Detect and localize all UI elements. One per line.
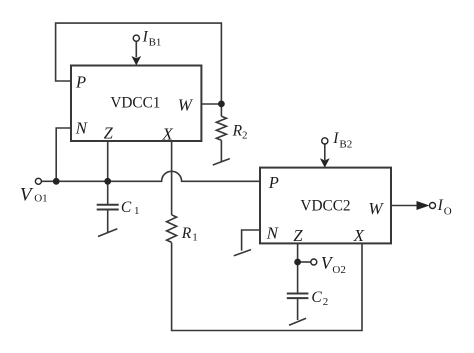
svg-text:P: P (268, 173, 279, 192)
resistor R2 (216, 116, 226, 140)
svg-text:I: I (142, 28, 149, 45)
svg-text:O: O (444, 206, 452, 218)
terminal I_B2 (322, 138, 328, 144)
svg-text:C: C (311, 289, 322, 306)
wire N2 to ground (242, 230, 260, 251)
svg-text:P: P (75, 73, 86, 92)
ground below R2 (213, 140, 230, 165)
terminal I_O (430, 203, 436, 209)
terminal VO1 (35, 178, 41, 184)
svg-text:O1: O1 (34, 193, 47, 205)
capacitor C1 (97, 205, 119, 210)
ground at N2 (234, 250, 251, 256)
wire feedback W1 to P1 (top loop) (56, 23, 222, 116)
wire main horizontal VO1 to P2 with hop over X1 (41, 171, 260, 181)
svg-text:R: R (181, 225, 192, 242)
wire VO2 tap (298, 261, 311, 263)
terminal VO2 (311, 259, 317, 265)
wire Z2 down to C2 (297, 243, 299, 292)
junction node VO1 (53, 178, 60, 185)
op-amp block U1 VDCC1 box (71, 66, 201, 142)
svg-text:I: I (437, 197, 444, 214)
junction node Z1/C1 (104, 178, 111, 185)
svg-text:VDCC2: VDCC2 (300, 197, 350, 214)
svg-text:W: W (368, 199, 384, 218)
arrowhead I_B2 (320, 158, 330, 167)
capacitor C2 (287, 294, 309, 299)
terminal I_B1 (133, 35, 139, 41)
resistor R1 (167, 215, 177, 243)
junction node Z2/VO2 (294, 259, 301, 266)
wire W1 to R2 node (201, 103, 221, 105)
svg-text:X: X (161, 124, 173, 143)
arrowhead I_B1 (131, 56, 141, 65)
svg-text:1: 1 (192, 232, 198, 244)
svg-text:W: W (178, 95, 194, 114)
svg-text:2: 2 (242, 130, 248, 142)
wire N1 to VO1 node (56, 128, 71, 181)
svg-text:2: 2 (323, 296, 329, 308)
ground below C2 (289, 299, 306, 325)
svg-text:O2: O2 (332, 264, 345, 276)
arrowhead I_O output (417, 201, 430, 210)
svg-text:C: C (121, 199, 132, 216)
svg-text:N: N (75, 119, 89, 138)
svg-text:R: R (232, 122, 243, 139)
wire I_B2 source to VDCC2 top (324, 144, 326, 160)
wire Z1 down to C1 (107, 141, 109, 204)
wire X1 down to R1 (171, 141, 173, 215)
svg-text:X: X (353, 226, 365, 245)
svg-text:Z: Z (293, 226, 303, 245)
svg-text:VDCC1: VDCC1 (110, 95, 160, 112)
svg-text:1: 1 (134, 205, 140, 217)
wire W2 output (391, 205, 417, 207)
svg-text:N: N (266, 223, 280, 242)
junction node W1/R2 (218, 101, 225, 108)
wire R1 bottom to bottom rail to X2 (172, 243, 362, 331)
svg-text:I: I (332, 130, 339, 147)
ground below C1 (98, 211, 117, 237)
svg-text:B2: B2 (339, 138, 352, 150)
svg-text:Z: Z (104, 124, 114, 143)
svg-text:B1: B1 (149, 36, 162, 48)
wire I_B1 source to VDCC1 top (135, 41, 137, 57)
op-amp block U2 VDCC2 box (260, 168, 391, 244)
